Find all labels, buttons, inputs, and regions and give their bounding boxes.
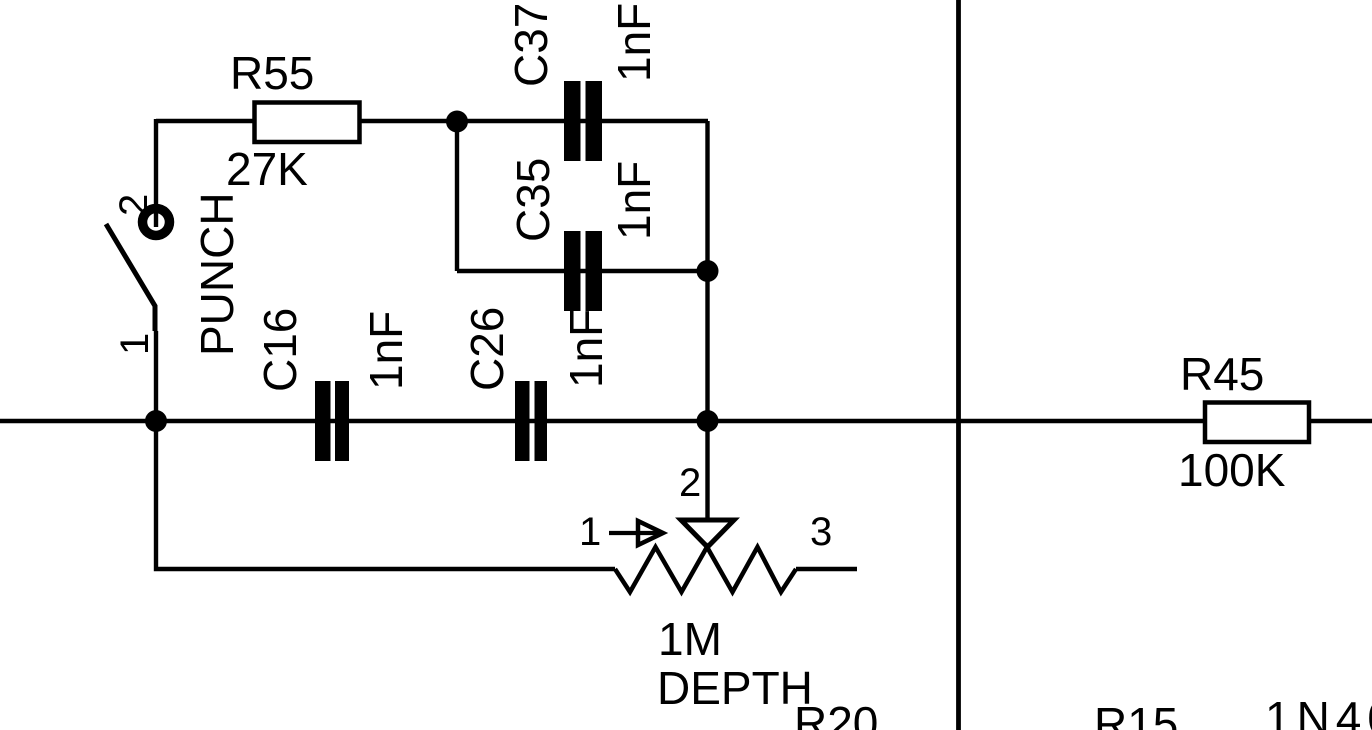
svg-text:1: 1 bbox=[579, 510, 601, 554]
svg-text:1nF: 1nF bbox=[608, 3, 660, 82]
svg-text:R20: R20 bbox=[794, 697, 878, 730]
svg-text:1: 1 bbox=[113, 333, 157, 355]
svg-text:R15: R15 bbox=[1094, 698, 1178, 730]
svg-text:C35: C35 bbox=[507, 158, 559, 242]
svg-text:100K: 100K bbox=[1178, 444, 1286, 496]
svg-text:1nF: 1nF bbox=[608, 161, 660, 240]
svg-text:27K: 27K bbox=[226, 143, 308, 195]
svg-text:1M: 1M bbox=[658, 613, 722, 665]
svg-text:R55: R55 bbox=[230, 47, 314, 99]
svg-text:2: 2 bbox=[112, 194, 156, 216]
svg-text:1N40: 1N40 bbox=[1265, 692, 1372, 730]
svg-text:2: 2 bbox=[679, 461, 701, 505]
svg-text:C37: C37 bbox=[505, 3, 557, 87]
svg-text:1nF: 1nF bbox=[560, 309, 612, 388]
svg-text:1nF: 1nF bbox=[360, 311, 412, 390]
svg-text:C26: C26 bbox=[461, 307, 513, 391]
svg-text:C16: C16 bbox=[254, 308, 306, 392]
svg-text:3: 3 bbox=[810, 510, 832, 554]
svg-text:PUNCH: PUNCH bbox=[191, 192, 243, 356]
svg-text:R45: R45 bbox=[1180, 348, 1264, 400]
svg-text:DEPTH: DEPTH bbox=[657, 662, 813, 714]
